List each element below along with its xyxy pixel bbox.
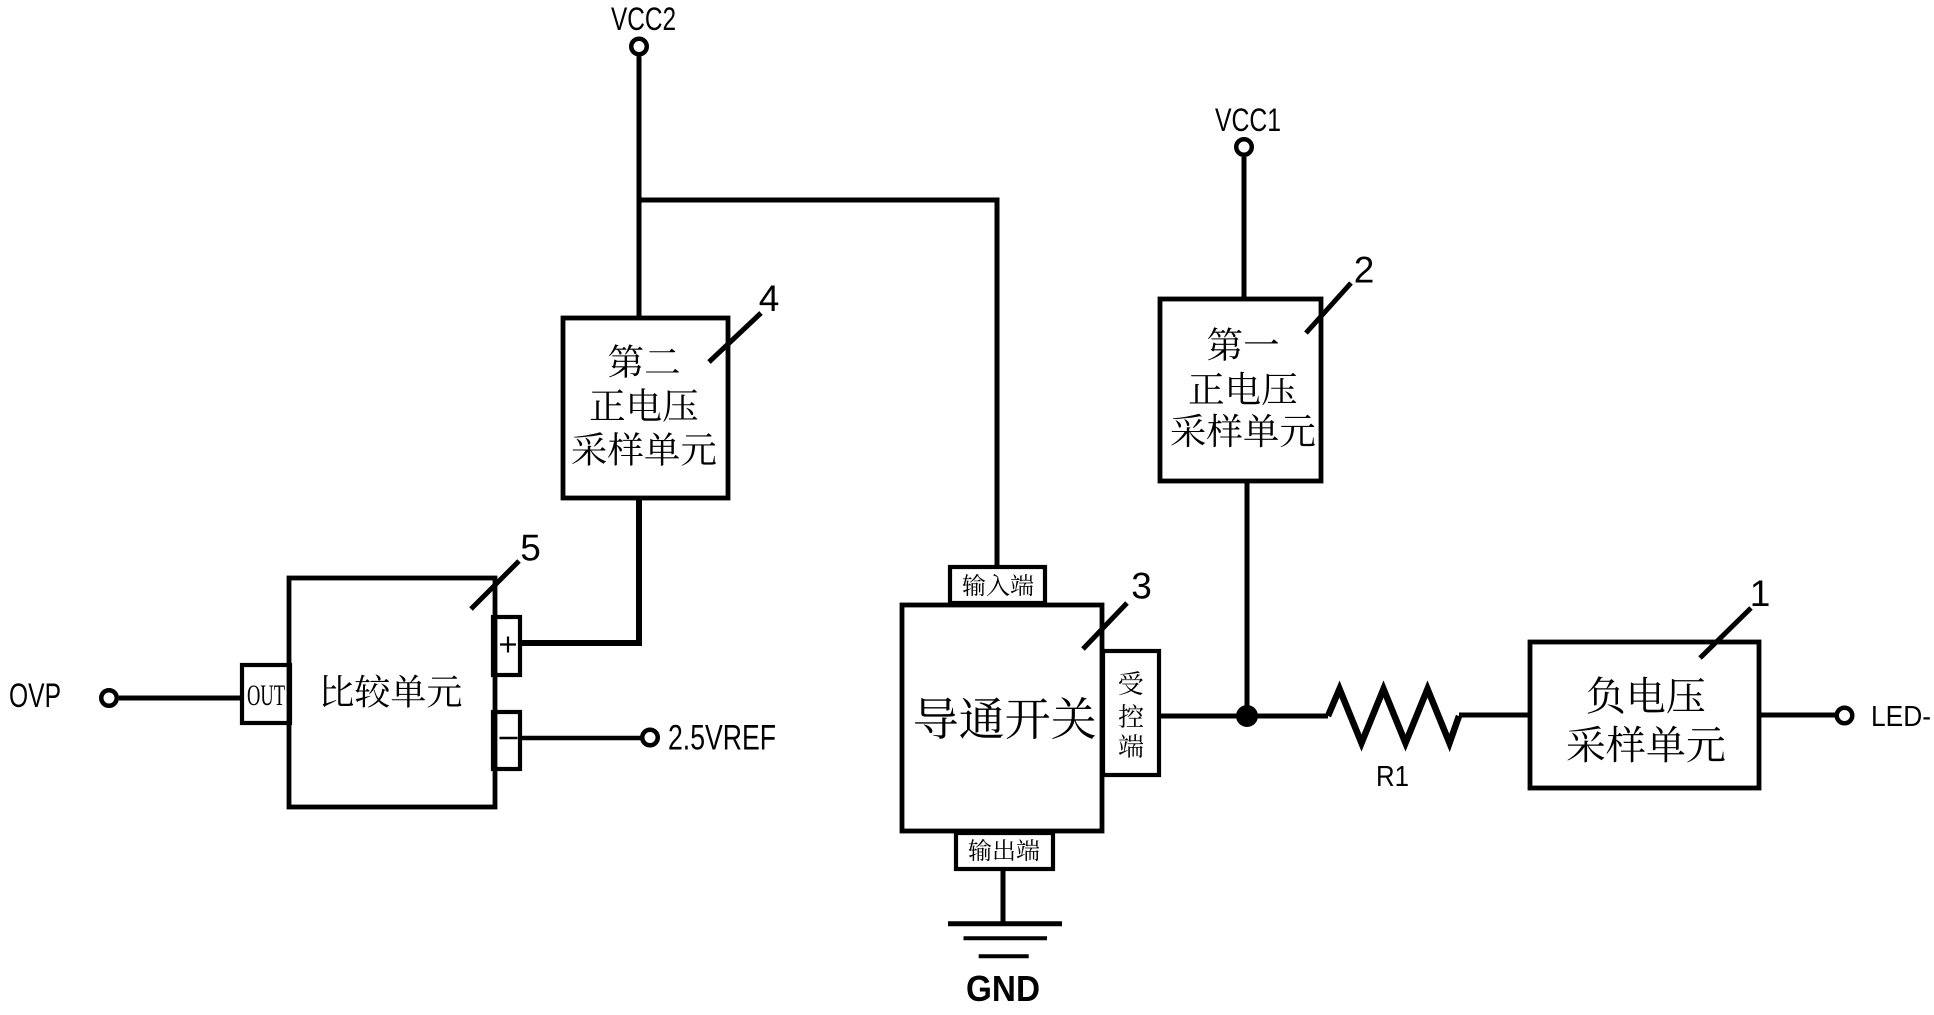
block 4 text line 2 <box>591 388 698 422</box>
block 1 text line 1 <box>1588 676 1705 713</box>
pin input terminal box (shu ru duan) <box>950 567 1045 603</box>
wire box 4 to + pin of comparator <box>520 498 639 643</box>
wire resistor to block 1 <box>1459 713 1530 718</box>
wire block 1 to LED- <box>1759 713 1835 718</box>
svg-text:3: 3 <box>1131 566 1152 607</box>
svg-text:VCC1: VCC1 <box>1215 102 1281 138</box>
terminal 2.5VREF circle <box>642 730 658 746</box>
wire box 2 to junction node <box>1245 481 1250 716</box>
svg-text:5: 5 <box>520 528 541 569</box>
resistor R1 zigzag <box>1328 689 1459 743</box>
terminal VCC1 circle <box>1236 139 1252 155</box>
pin controlled terminal box (shou kong duan) <box>1103 651 1159 775</box>
pin - box of comparator <box>493 712 520 769</box>
pin - symbol <box>500 737 518 740</box>
block 4 text line 3 <box>572 432 715 466</box>
pin output terminal text <box>969 839 1040 861</box>
pin input terminal text <box>963 574 1034 596</box>
terminal LED- circle <box>1837 708 1853 724</box>
svg-text:4: 4 <box>759 278 780 319</box>
terminal VCC2 circle <box>631 39 647 55</box>
pin controlled terminal text <box>1119 671 1143 695</box>
block 2 text line 2 <box>1190 372 1297 406</box>
svg-text:OUT: OUT <box>247 679 285 712</box>
svg-text:OVP: OVP <box>9 677 61 715</box>
wire VCC2 to box 4 <box>637 57 642 319</box>
block 3 text <box>915 697 1095 739</box>
wire - pin to 2.5VREF <box>520 736 642 741</box>
junction node dot <box>1236 705 1258 727</box>
svg-text:LED-: LED- <box>1871 701 1931 733</box>
wire OVP to OUT pin <box>119 696 242 701</box>
pin OUT box of comparator <box>242 665 290 723</box>
block 2: first positive voltage sampling unit (box) <box>1160 299 1321 481</box>
block 1: negative voltage sampling unit (box) <box>1530 642 1759 788</box>
svg-text:VCC2: VCC2 <box>611 1 676 37</box>
block 3: conduction switch (box) <box>902 605 1102 831</box>
ground symbol line 1 <box>948 921 1062 926</box>
leader line for label 1 <box>1700 608 1751 658</box>
svg-text:GND: GND <box>966 968 1040 1009</box>
leader line for label 3 <box>1083 603 1127 649</box>
block 2 text line 1 <box>1208 327 1278 360</box>
pin + box of comparator <box>493 617 520 675</box>
terminal OVP circle <box>101 690 117 706</box>
block 4: second positive voltage sampling unit (box) <box>563 318 728 498</box>
svg-text:2: 2 <box>1354 250 1375 291</box>
ground symbol line 3 <box>979 954 1029 958</box>
wire controlled terminal to resistor R1 <box>1159 714 1328 719</box>
pin output terminal box (shu chu duan) <box>956 833 1053 869</box>
svg-text:R1: R1 <box>1376 761 1409 793</box>
wire VCC2 branch to input terminal of switch 3 <box>639 200 997 567</box>
svg-text:1: 1 <box>1750 573 1771 614</box>
wire output terminal to ground <box>1001 869 1006 922</box>
wire VCC1 to box 2 <box>1242 157 1247 299</box>
leader line for label 4 <box>709 313 761 362</box>
block 2 text line 3 <box>1171 414 1314 448</box>
pin + symbol <box>500 637 516 653</box>
ground symbol line 2 <box>964 936 1048 940</box>
leader line for label 5 <box>471 561 519 609</box>
block 5: comparison unit (box) <box>289 578 495 807</box>
block 1 text line 2 <box>1567 726 1724 763</box>
block 5 text <box>323 674 462 707</box>
leader line for label 2 <box>1306 283 1351 333</box>
svg-text:2.5VREF: 2.5VREF <box>668 719 776 758</box>
block 4 text line 1 <box>609 344 679 377</box>
